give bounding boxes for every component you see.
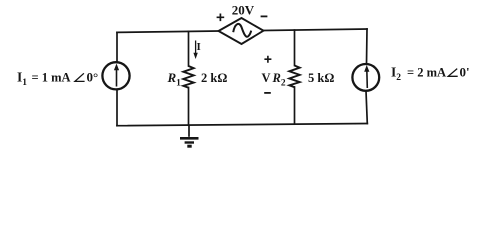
svg-text:5 kΩ: 5 kΩ	[308, 71, 334, 85]
svg-text:I: I	[197, 41, 201, 53]
svg-text:20V: 20V	[232, 3, 255, 18]
svg-text:2 kΩ: 2 kΩ	[201, 71, 227, 85]
svg-text:= 1 mA: = 1 mA	[32, 71, 71, 85]
svg-text:0°: 0°	[87, 70, 99, 85]
svg-text:= 2 mA: = 2 mA	[407, 66, 446, 80]
svg-text:0': 0'	[460, 65, 470, 80]
